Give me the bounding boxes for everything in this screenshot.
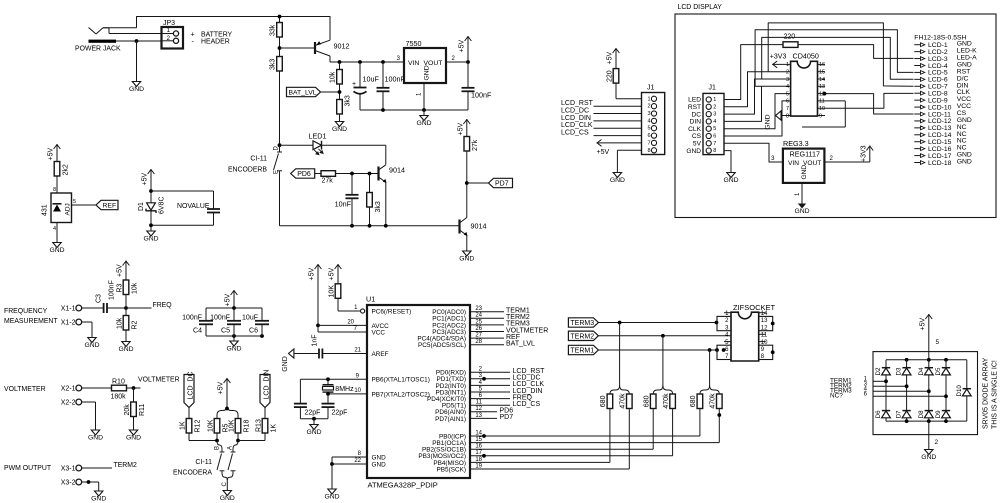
svg-text:C3: C3 <box>96 294 103 303</box>
svg-text:18: 18 <box>475 457 482 463</box>
svg-text:LCD DISPLAY: LCD DISPLAY <box>678 4 723 11</box>
svg-text:GND: GND <box>282 356 289 372</box>
wire PB7 <box>328 393 367 395</box>
+5V arrow <box>150 169 152 203</box>
resistor R12 1K <box>186 419 192 434</box>
flag PD7 <box>489 178 513 187</box>
svg-text:REG3.3: REG3.3 <box>783 139 809 148</box>
svg-text:11: 11 <box>819 99 825 105</box>
svg-text:GND: GND <box>416 120 431 127</box>
svg-text:22pF: 22pF <box>305 410 321 417</box>
svg-text:24: 24 <box>475 313 482 319</box>
svg-text:20: 20 <box>347 319 354 325</box>
wire J1p3 riser <box>724 79 791 114</box>
svg-text:R13: R13 <box>255 419 262 432</box>
svg-text:14: 14 <box>819 77 825 83</box>
svg-text:D8: D8 <box>918 410 925 418</box>
svg-text:100nF: 100nF <box>210 315 230 322</box>
ground <box>925 450 933 455</box>
svg-text:3: 3 <box>647 111 650 117</box>
svg-text:GND: GND <box>129 86 144 93</box>
svg-text:5V: 5V <box>693 141 702 148</box>
svg-text:GND: GND <box>126 434 141 441</box>
capacitor 10nF <box>351 174 353 195</box>
svg-text:GND: GND <box>459 255 474 262</box>
flag LCD_DC vertical <box>184 375 194 408</box>
IC SRV05 diode array box <box>873 352 978 435</box>
svg-text:PD7: PD7 <box>500 414 514 421</box>
FREQ wire <box>126 307 152 309</box>
svg-text:11: 11 <box>761 333 768 339</box>
svg-text:15: 15 <box>819 70 825 76</box>
pin1 wire down <box>423 83 425 110</box>
svg-text:1: 1 <box>786 62 789 68</box>
svg-text:X2-2: X2-2 <box>61 400 76 407</box>
svg-text:LCD-18: LCD-18 <box>928 160 952 167</box>
junction <box>135 39 139 43</box>
resistor 27k PD6 base <box>321 171 336 177</box>
svg-text:+5V: +5V <box>225 294 232 307</box>
svg-text:16: 16 <box>819 62 825 68</box>
svg-text:+5V: +5V <box>329 268 336 281</box>
crystal 8MHz <box>300 378 367 380</box>
+5V arrow reset pullup <box>337 264 339 284</box>
svg-text:MEASUREMENT: MEASUREMENT <box>4 318 58 325</box>
wire <box>82 387 112 389</box>
svg-text:ENCODERB: ENCODERB <box>228 167 267 174</box>
svg-text:SRV05 DIODE ARRAY: SRV05 DIODE ARRAY <box>983 357 990 429</box>
svg-text:D9: D9 <box>935 410 942 418</box>
svg-text:D6: D6 <box>875 410 882 418</box>
wire to GND <box>136 41 138 82</box>
resistor 2k2 <box>54 162 60 177</box>
regulator U? 7550 <box>404 48 446 83</box>
resistor 220 horizontal <box>783 42 798 48</box>
svg-text:7: 7 <box>786 106 789 112</box>
svg-text:THIS IS A SINGLE IC!: THIS IS A SINGLE IC! <box>992 360 999 429</box>
ground <box>91 430 99 435</box>
svg-text:+5V: +5V <box>309 268 316 281</box>
resistor 10k BAT_LVL divider <box>337 70 343 85</box>
svg-text:9012: 9012 <box>334 42 350 51</box>
svg-text:8: 8 <box>53 187 56 193</box>
svg-text:5: 5 <box>647 126 650 132</box>
resistor R5 10K <box>214 419 220 434</box>
power jack connector <box>89 28 97 35</box>
flag BAT_LVL <box>287 87 321 96</box>
node <box>279 37 281 57</box>
svg-text:25: 25 <box>475 319 482 325</box>
+5V arrow <box>125 261 127 281</box>
svg-text:5: 5 <box>713 126 716 132</box>
svg-text:FREQUENCY: FREQUENCY <box>4 308 48 315</box>
resistor 3k3 <box>367 193 373 208</box>
svg-text:LED: LED <box>688 97 701 104</box>
bracket pins 2-3 <box>717 316 731 330</box>
svg-text:PD7(AIN1): PD7(AIN1) <box>435 416 466 423</box>
IC REG1117 REG3.3 <box>783 149 825 183</box>
svg-text:GND: GND <box>424 65 431 80</box>
svg-text:CI-11: CI-11 <box>195 459 212 466</box>
svg-text:470k: 470k <box>620 393 627 409</box>
pin 4 wire <box>56 223 58 243</box>
capacitor 100nF <box>382 62 384 88</box>
svg-text:+5V: +5V <box>459 40 466 53</box>
capacitor 10uF polarized input <box>359 62 361 88</box>
arch A1 to LCD-7 <box>768 23 913 86</box>
svg-text:10k: 10k <box>132 282 139 294</box>
svg-text:REF: REF <box>103 203 117 210</box>
rail + ground <box>300 418 328 420</box>
svg-text:27k: 27k <box>322 178 334 185</box>
svg-text:GND: GND <box>220 495 235 502</box>
flag TERM2 <box>568 331 598 340</box>
connector J1 outer <box>642 93 665 155</box>
capacitor C4 100nF <box>205 308 207 321</box>
svg-text:VOLTMETER: VOLTMETER <box>138 377 180 384</box>
ground <box>122 342 130 347</box>
svg-text:X1-2: X1-2 <box>61 320 76 327</box>
flag REF <box>96 200 118 209</box>
diode D5 <box>945 360 947 368</box>
diode D10 <box>966 360 968 389</box>
IC CD4050 <box>791 61 818 116</box>
svg-text:R12: R12 <box>194 420 201 433</box>
svg-text:LCD_DIN: LCD_DIN <box>561 115 591 122</box>
svg-text:LCD_CS: LCD_CS <box>561 130 589 137</box>
svg-text:GND: GND <box>957 159 972 166</box>
resistor R3 10k <box>123 280 129 295</box>
stub p11 <box>818 100 846 102</box>
diode D3 <box>906 360 908 368</box>
svg-text:11: 11 <box>476 400 483 406</box>
svg-text:CLK: CLK <box>688 126 701 133</box>
+5V arrow <box>226 378 228 406</box>
svg-text:GND: GND <box>686 148 701 155</box>
LED1 <box>313 141 322 150</box>
wire <box>238 440 265 442</box>
svg-text:VCC: VCC <box>372 329 386 336</box>
svg-text:ATMEGA328P_PDIP: ATMEGA328P_PDIP <box>368 481 438 490</box>
svg-text:27: 27 <box>475 333 482 339</box>
svg-text:4: 4 <box>786 84 789 90</box>
wire X2-2 <box>82 401 96 403</box>
svg-text:26: 26 <box>475 326 482 332</box>
bottom rail <box>886 420 967 422</box>
svg-text:PB6(XTAL1/TOSC1): PB6(XTAL1/TOSC1) <box>372 377 430 384</box>
wire jack tip to top rail <box>109 33 162 35</box>
svg-text:RST: RST <box>688 104 701 111</box>
stubs right pins <box>818 63 826 65</box>
svg-text:8: 8 <box>713 148 716 154</box>
svg-text:X3-1: X3-1 <box>61 466 76 473</box>
svg-text:DIN: DIN <box>690 119 702 126</box>
svg-text:GND: GND <box>324 493 339 500</box>
capacitor C3 100nF <box>103 303 105 313</box>
svg-text:FREQ: FREQ <box>153 302 173 309</box>
svg-text:431: 431 <box>42 204 49 216</box>
svg-text:TERM1: TERM1 <box>570 348 594 355</box>
svg-text:D5: D5 <box>935 367 942 375</box>
ground <box>129 430 137 435</box>
svg-text:+: + <box>191 31 195 38</box>
svg-text:4: 4 <box>53 226 56 232</box>
svg-text:D: D <box>274 146 280 151</box>
ground <box>328 489 336 494</box>
svg-text:J1: J1 <box>709 85 717 92</box>
svg-text:10K: 10K <box>207 419 214 432</box>
svg-text:JP3: JP3 <box>163 20 175 27</box>
svg-text:5: 5 <box>73 199 76 205</box>
right pins PB with bus wires <box>470 435 700 437</box>
resistor 3k3 battery divider <box>277 57 283 72</box>
svg-text:2: 2 <box>647 104 650 110</box>
svg-text:R10: R10 <box>112 379 125 386</box>
bracket pins 8-9 <box>759 345 773 359</box>
svg-text:BATTERY: BATTERY <box>201 31 233 38</box>
svg-text:680: 680 <box>600 395 607 407</box>
svg-text:19: 19 <box>475 463 482 469</box>
svg-text:2: 2 <box>713 104 716 110</box>
svg-text:1: 1 <box>713 97 716 103</box>
ground <box>233 336 235 341</box>
collector node wire <box>330 61 404 63</box>
svg-text:+5V: +5V <box>457 123 464 136</box>
svg-text:GND: GND <box>226 345 241 352</box>
resistor R10 180k <box>112 385 127 391</box>
svg-text:12: 12 <box>475 406 482 412</box>
svg-text:470k: 470k <box>710 393 717 409</box>
svg-text:C6: C6 <box>249 328 258 335</box>
resistor R18 10K <box>235 419 241 434</box>
pin1 wire <box>801 183 803 204</box>
wire J1p2 to CD4050 p2 <box>724 72 791 107</box>
split arcs <box>217 406 227 419</box>
GND stem <box>928 421 930 449</box>
svg-text:GND: GND <box>84 342 99 349</box>
resistor 27k PD7 pullup <box>464 137 470 152</box>
svg-text:ENCODERA: ENCODERA <box>173 470 212 477</box>
svg-text:PD7: PD7 <box>495 181 509 188</box>
resistor R2 10k <box>123 316 129 331</box>
svg-text:U1: U1 <box>366 295 375 304</box>
capacitor C6 10uF <box>261 308 263 321</box>
svg-text:GND: GND <box>332 126 347 133</box>
shunt regulator 431 <box>51 193 72 223</box>
junction LED row <box>278 143 282 147</box>
wire J1p4 to CD4050 p4 <box>724 86 791 121</box>
wire <box>82 481 99 483</box>
svg-text:NOVALUE: NOVALUE <box>177 203 210 210</box>
svg-text:AREF: AREF <box>372 351 389 358</box>
svg-text:4: 4 <box>713 119 716 125</box>
diode D7 <box>902 410 910 412</box>
svg-text:15: 15 <box>475 437 482 443</box>
ground <box>132 82 140 87</box>
svg-text:D3: D3 <box>896 367 903 375</box>
resistor pair stems <box>619 323 621 386</box>
capacitor C? NOVALUE <box>207 208 220 210</box>
wire X1-2 to gnd <box>82 321 92 323</box>
svg-text:8MHz: 8MHz <box>335 386 354 393</box>
svg-text:LED1: LED1 <box>309 132 327 141</box>
transistor Q? 9014 NPN <box>377 167 379 181</box>
svg-text:8: 8 <box>647 148 650 154</box>
wire TERM2 <box>82 467 112 469</box>
svg-text:PC6(/RESET): PC6(/RESET) <box>372 308 412 315</box>
svg-text:9014: 9014 <box>389 166 405 175</box>
wire p12 to LCD-11 <box>818 94 914 114</box>
svg-text:NC?: NC? <box>830 393 843 400</box>
capacitor 22pF left <box>299 379 301 403</box>
wire p10 to LCD-8 <box>818 93 914 108</box>
resistor R13 1K <box>262 419 268 434</box>
svg-text:2: 2 <box>786 70 789 76</box>
svg-text:ZIFSOCKET: ZIFSOCKET <box>733 303 776 312</box>
svg-text:180k: 180k <box>111 394 127 401</box>
svg-text:BAT_LVL: BAT_LVL <box>506 341 535 348</box>
svg-text:POWER JACK: POWER JACK <box>75 46 121 53</box>
svg-text:1K: 1K <box>270 424 277 433</box>
svg-text:16: 16 <box>475 444 482 450</box>
svg-text:10K: 10K <box>328 285 335 298</box>
svg-text:17: 17 <box>475 450 482 456</box>
svg-text:PC5(ADC5/SCL): PC5(ADC5/SCL) <box>418 342 466 349</box>
svg-text:X2-1: X2-1 <box>61 386 76 393</box>
svg-text:GND: GND <box>723 177 738 184</box>
capacitor 22pF right <box>327 394 329 404</box>
wire J1p5 to CD4050 p5 <box>724 94 791 129</box>
svg-text:C5: C5 <box>221 328 230 335</box>
svg-text:VIN: VIN <box>788 160 799 167</box>
svg-text:1: 1 <box>647 96 650 102</box>
diode D4 <box>928 360 930 368</box>
svg-text:R11: R11 <box>139 404 146 416</box>
wire J1p7 to REG1117 <box>724 143 783 162</box>
svg-text:GND: GND <box>372 461 387 468</box>
svg-text:GND: GND <box>91 495 106 502</box>
diode D6 <box>882 410 890 412</box>
ground <box>463 251 471 256</box>
svg-text:28: 28 <box>475 339 482 345</box>
+3V3 arrow pin1 <box>772 63 790 65</box>
svg-text:100nF: 100nF <box>471 91 492 100</box>
wire to cap <box>151 190 214 192</box>
diode D8 <box>925 410 933 412</box>
+5V arrow AVCC VCC <box>317 264 319 325</box>
capacitor 100nF output <box>467 62 469 88</box>
svg-text:R3: R3 <box>116 283 123 292</box>
svg-text:LCD_RST: LCD_RST <box>561 100 594 107</box>
bus risers <box>609 409 611 463</box>
+5V arrow <box>467 36 469 62</box>
svg-text:GND: GND <box>306 429 321 436</box>
capacitor 1nF <box>318 349 320 359</box>
bracket pins 6-7 <box>717 345 731 359</box>
ground <box>335 122 343 127</box>
svg-text:+: + <box>352 81 356 88</box>
svg-text:GND: GND <box>921 454 936 461</box>
top rail <box>886 359 967 361</box>
svg-text:+3V3: +3V3 <box>860 145 867 162</box>
svg-text:100nF: 100nF <box>109 280 116 300</box>
svg-text:22pF: 22pF <box>332 410 348 417</box>
svg-text:+5V: +5V <box>607 52 614 65</box>
svg-text:PWM OUTPUT: PWM OUTPUT <box>4 465 52 472</box>
svg-text:1nF: 1nF <box>311 334 318 346</box>
ground <box>95 491 103 496</box>
svg-text:GND: GND <box>794 208 809 215</box>
svg-text:10k: 10k <box>116 317 123 329</box>
resistor 220 vertical <box>613 69 619 84</box>
arch A2 to LCD-5 <box>755 30 913 87</box>
svg-text:6: 6 <box>786 99 789 105</box>
svg-text:13: 13 <box>475 413 482 419</box>
svg-text:21: 21 <box>354 348 361 354</box>
svg-text:GND: GND <box>372 454 387 461</box>
+5V arrow pin7 <box>597 142 642 144</box>
pin8 to ground <box>617 149 641 151</box>
pin stubs <box>724 312 731 314</box>
+5V arrow right column <box>466 119 468 137</box>
ground <box>53 243 61 248</box>
svg-text:10k: 10k <box>330 71 337 83</box>
svg-text:3: 3 <box>713 112 716 118</box>
resistor R11 20k <box>133 388 135 402</box>
connector JP3 battery header <box>162 27 184 49</box>
wire TERM2 to ZIF <box>598 335 731 337</box>
zener diode D1 6V8C <box>147 203 156 210</box>
svg-text:10: 10 <box>819 106 825 112</box>
ground <box>423 110 425 116</box>
svg-text:PB5(SCK): PB5(SCK) <box>437 466 466 473</box>
svg-text:GND: GND <box>88 434 103 441</box>
wire 220 to LCD-3 <box>798 45 914 59</box>
wire J1p8 to ground <box>724 151 731 173</box>
svg-text:+5V: +5V <box>218 382 225 395</box>
svg-text:3k3: 3k3 <box>375 201 382 212</box>
capacitor C5 100nF <box>233 308 235 321</box>
LCD DISPLAY box <box>675 14 996 218</box>
svg-text:D1: D1 <box>138 202 145 211</box>
transistor Q? 9014 NPN lower <box>458 220 460 234</box>
svg-text:14: 14 <box>475 430 482 436</box>
svg-text:A: A <box>227 446 233 450</box>
bottom rail <box>280 225 460 227</box>
svg-text:6: 6 <box>647 133 650 139</box>
svg-text:9: 9 <box>819 113 822 119</box>
svg-text:+5V: +5V <box>48 148 55 161</box>
svg-text:5: 5 <box>786 91 789 97</box>
svg-text:GND: GND <box>49 247 64 254</box>
svg-text:3: 3 <box>786 77 789 83</box>
wire J1p1 to 220 <box>724 45 783 100</box>
wire <box>280 144 314 146</box>
wire TERM1 to ZIF <box>598 349 717 351</box>
+5V arrow <box>56 144 58 162</box>
IC U1 ATMEGA328P_PDIP <box>367 305 470 478</box>
svg-text:LCD_CS: LCD_CS <box>513 401 541 408</box>
svg-text:6: 6 <box>713 134 716 140</box>
svg-text:TERM2: TERM2 <box>570 333 594 340</box>
svg-text:GND: GND <box>765 114 772 129</box>
ground <box>727 173 735 178</box>
wire <box>315 173 321 175</box>
svg-text:+5V: +5V <box>142 173 149 186</box>
svg-text:680: 680 <box>644 395 651 407</box>
wire J1p6 to CD4050 p6 <box>724 101 791 136</box>
connector J1 inner <box>703 93 724 154</box>
